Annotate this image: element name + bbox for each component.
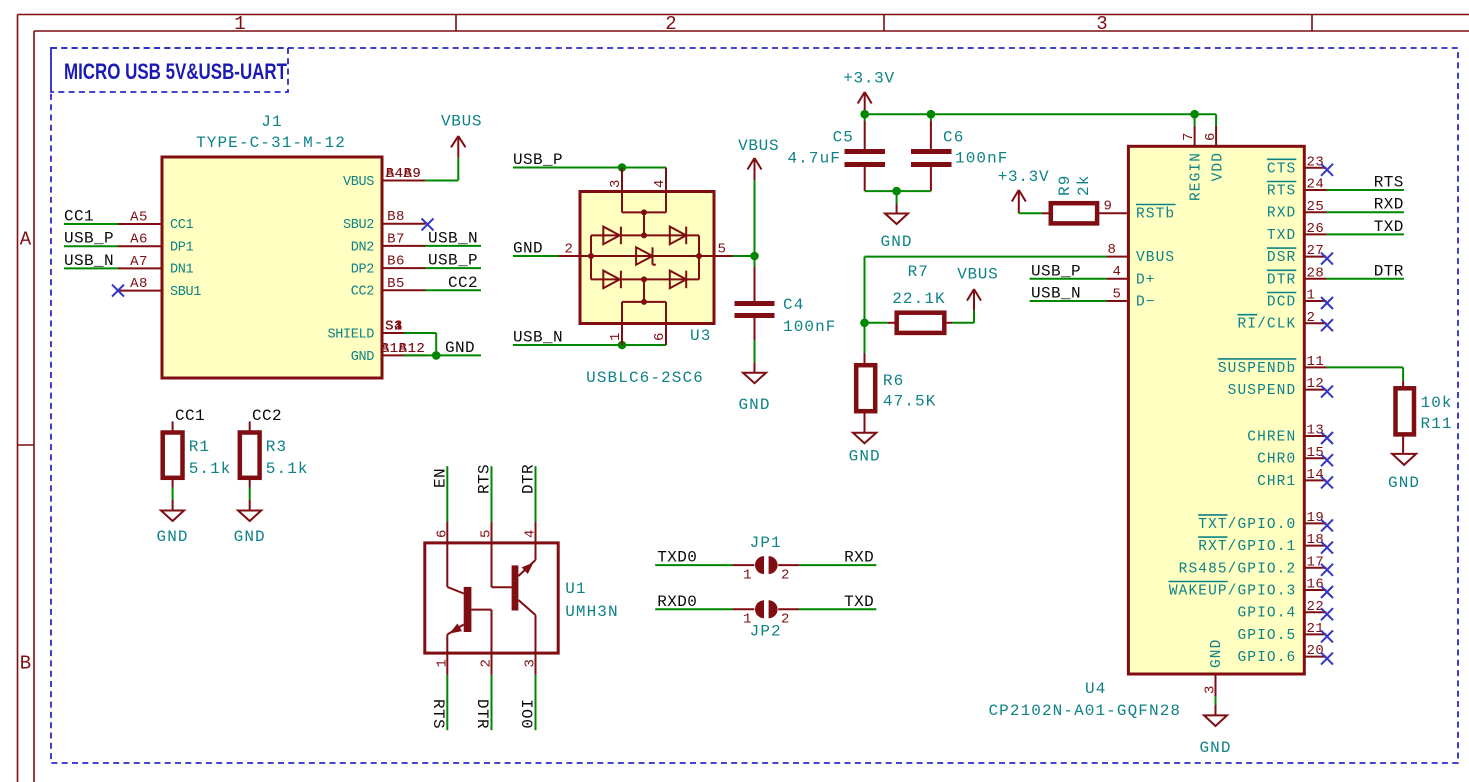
svg-text:22: 22 — [1307, 599, 1325, 615]
svg-text:GND: GND — [234, 528, 266, 546]
svg-text:USB_N: USB_N — [428, 229, 478, 247]
svg-text:VBUS: VBUS — [738, 137, 779, 155]
svg-text:16: 16 — [1307, 577, 1325, 593]
svg-text:U1: U1 — [565, 580, 586, 598]
svg-text:RXD: RXD — [1267, 206, 1296, 222]
svg-text:S4: S4 — [385, 319, 403, 335]
svg-text:A7: A7 — [130, 254, 148, 270]
svg-text:USB_N: USB_N — [513, 329, 563, 347]
svg-text:B6: B6 — [387, 254, 405, 270]
svg-text:B: B — [20, 653, 31, 675]
svg-text:2: 2 — [1307, 310, 1316, 326]
svg-text:DTR: DTR — [520, 464, 538, 494]
svg-text:1: 1 — [743, 568, 752, 584]
svg-text:R1: R1 — [189, 438, 210, 456]
svg-text:CHREN: CHREN — [1247, 430, 1296, 446]
svg-text:CHR0: CHR0 — [1257, 452, 1296, 468]
svg-text:B4B9: B4B9 — [386, 166, 422, 182]
svg-text:+3.3V: +3.3V — [998, 168, 1050, 186]
svg-text:2: 2 — [565, 242, 574, 258]
svg-text:D−: D− — [1136, 295, 1156, 311]
svg-text:TXT/GPIO.0: TXT/GPIO.0 — [1198, 517, 1296, 533]
svg-text:24: 24 — [1307, 177, 1325, 193]
svg-text:VBUS: VBUS — [441, 113, 482, 131]
svg-text:VDD: VDD — [1211, 152, 1227, 181]
svg-text:13: 13 — [1307, 423, 1325, 439]
svg-text:5: 5 — [1113, 286, 1122, 302]
svg-text:R11: R11 — [1421, 415, 1453, 433]
svg-text:4: 4 — [523, 529, 539, 538]
svg-text:3: 3 — [1096, 13, 1107, 35]
svg-text:6: 6 — [435, 529, 451, 538]
svg-text:TXD0: TXD0 — [657, 549, 697, 567]
svg-text:12: 12 — [1307, 376, 1325, 392]
svg-text:R3: R3 — [266, 438, 287, 456]
svg-text:B1B12: B1B12 — [381, 341, 426, 357]
svg-text:GND: GND — [157, 528, 189, 546]
svg-text:2: 2 — [479, 659, 495, 668]
svg-text:USB_P: USB_P — [64, 230, 114, 248]
svg-text:SBU2: SBU2 — [343, 218, 374, 233]
svg-text:2k: 2k — [1075, 175, 1093, 196]
svg-text:1: 1 — [608, 332, 624, 341]
svg-text:DCD: DCD — [1267, 295, 1296, 311]
svg-text:U3: U3 — [690, 327, 711, 345]
svg-text:100nF: 100nF — [783, 318, 837, 336]
svg-text:5.1k: 5.1k — [189, 460, 232, 478]
svg-text:GND: GND — [1388, 474, 1420, 492]
svg-text:J1: J1 — [261, 113, 282, 131]
svg-text:9: 9 — [1104, 198, 1113, 214]
svg-text:RS485/GPIO.2: RS485/GPIO.2 — [1179, 561, 1297, 577]
svg-text:RSTb: RSTb — [1136, 207, 1175, 223]
svg-text:2: 2 — [781, 568, 790, 584]
svg-text:GPIO.5: GPIO.5 — [1237, 628, 1296, 644]
svg-text:JP2: JP2 — [750, 623, 782, 641]
svg-text:CC2: CC2 — [351, 285, 375, 300]
svg-text:15: 15 — [1307, 445, 1325, 461]
svg-text:C5: C5 — [833, 129, 854, 147]
svg-text:CC1: CC1 — [175, 407, 205, 425]
svg-text:C6: C6 — [943, 129, 964, 147]
svg-text:GPIO.4: GPIO.4 — [1237, 606, 1296, 622]
svg-text:17: 17 — [1307, 554, 1325, 570]
svg-text:DSR: DSR — [1267, 250, 1296, 266]
svg-text:22.1K: 22.1K — [892, 290, 946, 308]
svg-text:+3.3V: +3.3V — [843, 70, 895, 88]
svg-text:14: 14 — [1307, 467, 1325, 483]
svg-text:4: 4 — [652, 179, 668, 188]
svg-text:DTR: DTR — [473, 699, 491, 729]
svg-text:USB_N: USB_N — [64, 252, 114, 270]
svg-text:DP2: DP2 — [351, 263, 375, 278]
svg-text:RTS: RTS — [1374, 174, 1404, 192]
svg-text:TXD: TXD — [1374, 218, 1404, 236]
svg-text:GND: GND — [1199, 739, 1231, 757]
svg-text:RTS: RTS — [476, 464, 494, 494]
svg-text:SBU1: SBU1 — [170, 285, 201, 300]
svg-text:U4: U4 — [1085, 680, 1106, 698]
svg-text:VBUS: VBUS — [343, 175, 374, 190]
svg-text:2: 2 — [781, 612, 790, 628]
svg-text:CHR1: CHR1 — [1257, 474, 1296, 490]
svg-text:11: 11 — [1307, 354, 1325, 370]
svg-text:RTS: RTS — [1267, 184, 1296, 200]
svg-text:19: 19 — [1307, 510, 1325, 526]
svg-text:3: 3 — [1203, 685, 1219, 694]
svg-text:GND: GND — [351, 350, 375, 365]
svg-text:VBUS: VBUS — [1136, 250, 1175, 266]
svg-text:C4: C4 — [783, 296, 804, 314]
svg-text:UMH3N: UMH3N — [565, 603, 619, 621]
svg-text:USB_P: USB_P — [1031, 262, 1081, 280]
svg-text:1: 1 — [234, 13, 245, 35]
svg-text:RXD: RXD — [1374, 196, 1404, 214]
svg-text:REGIN: REGIN — [1189, 152, 1205, 201]
svg-text:2: 2 — [665, 13, 676, 35]
svg-text:6: 6 — [1203, 132, 1219, 141]
svg-text:3: 3 — [523, 659, 539, 668]
svg-text:18: 18 — [1307, 532, 1325, 548]
svg-text:21: 21 — [1307, 621, 1325, 637]
svg-text:DTR: DTR — [1267, 272, 1296, 288]
svg-text:DN1: DN1 — [170, 263, 194, 278]
svg-text:A5: A5 — [130, 210, 148, 226]
svg-text:10k: 10k — [1421, 394, 1453, 412]
svg-text:SUSPEND: SUSPEND — [1228, 383, 1297, 399]
svg-text:CTS: CTS — [1267, 161, 1296, 177]
svg-text:23: 23 — [1307, 154, 1325, 170]
svg-text:R6: R6 — [883, 372, 904, 390]
svg-text:SUSPENDb: SUSPENDb — [1218, 361, 1296, 377]
svg-text:TYPE-C-31-M-12: TYPE-C-31-M-12 — [196, 134, 346, 152]
svg-text:47.5K: 47.5K — [883, 393, 937, 411]
svg-text:5: 5 — [479, 529, 495, 538]
svg-text:6: 6 — [652, 332, 668, 341]
svg-text:25: 25 — [1307, 199, 1325, 215]
svg-text:GND: GND — [445, 339, 475, 357]
svg-text:WAKEUP/GPIO.3: WAKEUP/GPIO.3 — [1169, 584, 1296, 600]
svg-text:USB_N: USB_N — [1031, 285, 1081, 303]
svg-text:A6: A6 — [130, 232, 148, 248]
svg-text:SHIELD: SHIELD — [327, 327, 374, 342]
svg-text:GND: GND — [849, 448, 881, 466]
svg-text:JP1: JP1 — [750, 534, 782, 552]
svg-text:RTS: RTS — [429, 699, 447, 729]
svg-text:1: 1 — [435, 659, 451, 668]
svg-text:CC2: CC2 — [252, 407, 282, 425]
svg-text:DTR: DTR — [1374, 262, 1404, 280]
svg-text:USB_P: USB_P — [513, 151, 563, 169]
svg-text:20: 20 — [1307, 643, 1325, 659]
svg-text:CC1: CC1 — [64, 208, 94, 226]
svg-text:CC1: CC1 — [170, 218, 194, 233]
svg-text:CP2102N-A01-GQFN28: CP2102N-A01-GQFN28 — [988, 702, 1181, 720]
svg-text:GND: GND — [738, 396, 770, 414]
svg-text:CC2: CC2 — [448, 274, 478, 292]
svg-text:28: 28 — [1307, 265, 1325, 281]
svg-text:R9: R9 — [1056, 175, 1074, 196]
svg-text:4: 4 — [1113, 264, 1122, 280]
svg-text:1: 1 — [1307, 288, 1316, 304]
svg-text:A8: A8 — [130, 276, 148, 292]
svg-text:TXD: TXD — [844, 593, 874, 611]
svg-text:TXD: TXD — [1267, 228, 1296, 244]
svg-text:5.1k: 5.1k — [266, 460, 309, 478]
svg-text:MICRO USB 5V&USB-UART: MICRO USB 5V&USB-UART — [64, 60, 287, 85]
svg-text:A: A — [20, 229, 32, 251]
svg-text:100nF: 100nF — [955, 150, 1009, 168]
svg-text:RI/CLK: RI/CLK — [1237, 317, 1296, 333]
svg-text:D+: D+ — [1136, 272, 1156, 288]
svg-text:7: 7 — [1181, 132, 1197, 141]
svg-text:DN2: DN2 — [351, 240, 375, 255]
svg-text:3: 3 — [608, 179, 624, 188]
svg-text:27: 27 — [1307, 243, 1325, 259]
svg-text:EN: EN — [431, 468, 449, 488]
svg-text:USBLC6-2SC6: USBLC6-2SC6 — [586, 369, 704, 387]
svg-text:B8: B8 — [387, 209, 405, 225]
svg-text:26: 26 — [1307, 221, 1325, 237]
svg-text:VBUS: VBUS — [957, 266, 998, 284]
svg-text:5: 5 — [718, 242, 727, 258]
svg-text:GND: GND — [513, 240, 543, 258]
svg-text:RXT/GPIO.1: RXT/GPIO.1 — [1198, 539, 1296, 555]
svg-text:IO0: IO0 — [517, 699, 535, 729]
svg-text:RXD: RXD — [844, 549, 874, 567]
svg-text:R7: R7 — [908, 263, 929, 281]
svg-text:8: 8 — [1108, 242, 1117, 258]
svg-text:4.7uF: 4.7uF — [787, 150, 841, 168]
svg-text:B5: B5 — [387, 276, 405, 292]
svg-text:USB_P: USB_P — [428, 252, 478, 270]
svg-text:GPIO.6: GPIO.6 — [1237, 650, 1296, 666]
svg-text:DP1: DP1 — [170, 240, 194, 255]
svg-text:B7: B7 — [387, 231, 405, 247]
svg-text:GND: GND — [881, 233, 913, 251]
svg-text:GND: GND — [1209, 639, 1225, 668]
svg-text:RXD0: RXD0 — [657, 593, 697, 611]
